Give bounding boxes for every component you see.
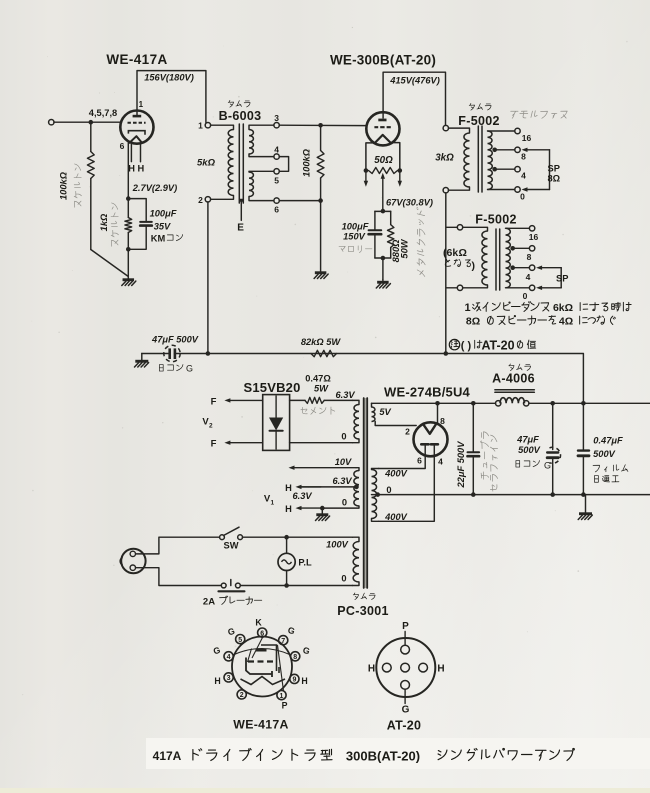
node 47uF top: [550, 401, 555, 406]
svg-text:6: 6: [120, 141, 125, 151]
ground V1 cathode: [127, 277, 129, 279]
svg-text:10V: 10V: [335, 457, 352, 467]
svg-text:( ): ( ): [461, 340, 472, 352]
AT-20 pin H right: [419, 663, 428, 672]
svg-text:1: 1: [198, 121, 203, 131]
tap 6.3V arrow: [299, 486, 357, 488]
T2 tap 0: [488, 189, 515, 191]
svg-text:P.L: P.L: [298, 558, 312, 568]
T3 primary coil: [482, 231, 488, 285]
node 22uF top: [471, 401, 476, 406]
svg-text:H: H: [128, 164, 135, 174]
svg-text:5kΩ: 5kΩ: [197, 158, 216, 169]
bridge diode symbol: [275, 396, 277, 418]
svg-text:3: 3: [227, 675, 231, 682]
T2 tap 4: [495, 168, 515, 170]
PT HV winding (right): [372, 470, 377, 519]
svg-text:G: G: [544, 461, 551, 471]
label Tamura (A-4006): [509, 364, 531, 371]
svg-text:400V: 400V: [384, 469, 408, 479]
svg-text:G: G: [402, 705, 410, 716]
node 47uF bottom: [550, 492, 555, 497]
svg-text:0.47μF: 0.47μF: [593, 436, 623, 446]
caption white strip: [146, 738, 650, 769]
T1 sec tap 5: [249, 170, 274, 173]
V3 pin8 wire: [437, 403, 439, 424]
V3 plates: [421, 443, 428, 446]
label Tamura (F-5002): [469, 103, 491, 110]
svg-text:5: 5: [274, 176, 279, 186]
resistor 100k grid leak: [90, 122, 92, 151]
svg-text:50Ω: 50Ω: [374, 155, 393, 166]
wire pin3 to 300B grid: [279, 124, 366, 126]
V2 filament: [375, 135, 391, 143]
wire cathode down: [127, 143, 129, 199]
svg-text:4: 4: [274, 145, 279, 155]
label Tamura PC-3001: [353, 593, 375, 600]
V1 cathode: [128, 131, 145, 135]
node 100k bottom: [318, 198, 323, 203]
svg-text:8Ω: 8Ω: [548, 174, 561, 184]
svg-text:WE-274B/5U4: WE-274B/5U4: [384, 385, 471, 400]
wire pin2 down to B+ node: [207, 202, 209, 354]
PT 100V winding (left bottom): [353, 542, 359, 582]
node wiper bottom: [381, 209, 386, 214]
capacitor 0.47uF film: [582, 403, 584, 450]
T1 sec tap 4: [249, 154, 274, 157]
svg-text:): ): [472, 260, 476, 272]
tap 10V arrow: [356, 468, 359, 471]
transformer PT PC-3001 core: [363, 398, 368, 588]
T2 tap 8: [495, 149, 515, 151]
svg-text:KM: KM: [151, 233, 166, 243]
svg-text:H: H: [368, 664, 375, 675]
svg-text:H: H: [437, 664, 444, 675]
node pin8: [435, 401, 440, 406]
label amorphous gray: [509, 111, 567, 119]
svg-text:1: 1: [139, 100, 144, 109]
wire bridge bottom to 0 tap: [290, 442, 353, 444]
capacitor 47uF 500V (dashed can): [164, 345, 180, 361]
choke A-4006: [495, 389, 534, 391]
T2 tap 16: [488, 130, 515, 132]
PT 5V winding (right): [372, 407, 375, 422]
svg-text:6.3V: 6.3V: [292, 491, 312, 501]
wire jumper pins 4-5: [279, 157, 288, 172]
T3 core: [495, 229, 497, 290]
resistor 0.47 Ohm 5W cement: [290, 399, 305, 401]
T1 secondary lower coil: [249, 172, 253, 197]
label Nikkon G: [159, 365, 183, 372]
svg-text:5V: 5V: [379, 407, 391, 417]
wire pin2 to 5V winding bottom: [375, 422, 416, 426]
svg-text:3kΩ: 3kΩ: [435, 153, 454, 164]
capacitor 47uF 500V block (dashed): [552, 403, 554, 449]
capacitor 22uF 500V: [472, 403, 474, 452]
capacitor 100uF cathode bypass: [128, 199, 146, 222]
svg-text:AT-20: AT-20: [387, 719, 422, 733]
resistor 1k cathode: [127, 199, 129, 218]
transformer T1 B-6003 core: [238, 124, 240, 203]
wire 156V plate supply rail: [137, 71, 206, 123]
svg-text:0: 0: [341, 432, 346, 442]
svg-text:1: 1: [270, 500, 274, 507]
node cathode top: [126, 196, 131, 201]
svg-text:AT-20: AT-20: [481, 339, 514, 353]
label metal clad rotated gray: [417, 207, 425, 276]
svg-text:300B(AT-20): 300B(AT-20): [346, 749, 420, 764]
svg-text:PC-3001: PC-3001: [337, 604, 388, 618]
socket internal structure: [248, 638, 263, 663]
svg-text:35V: 35V: [154, 221, 171, 231]
svg-text:0: 0: [386, 485, 391, 495]
wire plug top to SW: [136, 537, 220, 554]
AT-20 pin H left: [382, 663, 391, 672]
svg-text:7: 7: [281, 638, 285, 645]
svg-text:H: H: [285, 483, 292, 493]
svg-text:8: 8: [521, 152, 526, 162]
node grid junction: [89, 120, 94, 125]
T2 primary pins: [443, 125, 448, 130]
svg-text:SW: SW: [224, 541, 239, 551]
socket WE-417A outline: [232, 637, 292, 697]
label tubular cerafine rotated gray: [481, 432, 489, 480]
wire pin6 to 400V top tap: [379, 444, 426, 468]
svg-text:417A: 417A: [153, 749, 182, 763]
PT heater winding B (left middle): [354, 471, 359, 507]
svg-text:415V(476V): 415V(476V): [389, 76, 440, 86]
node pin2/B+ junction: [206, 351, 211, 356]
svg-text:100kΩ: 100kΩ: [59, 171, 69, 200]
T1 sec tap 3: [249, 125, 274, 129]
breaker 2A: [221, 583, 226, 588]
svg-text:47μF 500V: 47μF 500V: [151, 335, 199, 345]
svg-text:22μF 500V: 22μF 500V: [456, 441, 466, 489]
node 100k top: [318, 123, 323, 128]
AC plug: [121, 549, 145, 573]
svg-text:6: 6: [417, 456, 422, 466]
parallel RC bottom bar: [375, 257, 391, 259]
bottom rail 0V: [378, 494, 650, 496]
svg-text:P: P: [282, 701, 288, 711]
svg-text:1: 1: [280, 693, 284, 700]
V2 grid dashes: [374, 126, 390, 128]
wire input to grid: [54, 121, 121, 123]
T3 secondary lower: [506, 248, 511, 288]
AT-20 pin center: [401, 663, 410, 672]
svg-text:S15VB20: S15VB20: [243, 380, 300, 395]
node PL bottom: [284, 583, 289, 588]
node 0.47uF bottom: [581, 492, 586, 497]
ground heater 0: [321, 508, 323, 513]
wire pin4 to 400V bottom tap: [379, 444, 435, 521]
svg-text:4,5,7,8: 4,5,7,8: [89, 108, 117, 118]
svg-text:(6k: (6k: [443, 247, 458, 259]
svg-text:16: 16: [529, 232, 539, 242]
T1 primary bottom lead + pin 2: [211, 196, 234, 200]
tube V3 274B envelope: [414, 422, 448, 456]
svg-text:K: K: [255, 618, 262, 628]
svg-text:2: 2: [405, 427, 410, 437]
V2 filament leads: [366, 143, 375, 171]
svg-text:0: 0: [520, 192, 525, 202]
ground 880: [382, 280, 384, 282]
svg-text:100kΩ: 100kΩ: [302, 148, 312, 177]
V3 filament V: [423, 424, 436, 434]
wire plug bottom to breaker: [136, 568, 221, 586]
svg-text:2: 2: [240, 692, 244, 699]
T1 primary coil: [228, 130, 233, 196]
svg-text:G: G: [186, 364, 193, 374]
svg-text:WE-300B(AT-20): WE-300B(AT-20): [330, 53, 436, 68]
switch SW: [220, 535, 225, 540]
svg-text:9: 9: [292, 677, 296, 684]
tap 0 arrow + ground: [322, 506, 359, 508]
svg-text:6kΩ: 6kΩ: [553, 302, 573, 314]
svg-text:SP: SP: [548, 164, 560, 174]
resistor 100k grid (300B): [320, 125, 322, 150]
svg-text:8: 8: [527, 252, 532, 262]
T3 tap 4: [513, 267, 530, 269]
svg-text:100V: 100V: [326, 540, 349, 550]
wire 415V rail: [383, 72, 445, 125]
svg-text:100μF: 100μF: [342, 222, 369, 232]
svg-text:150V: 150V: [343, 232, 366, 242]
svg-text:500V: 500V: [593, 449, 616, 459]
svg-text:6.3V: 6.3V: [332, 476, 352, 486]
svg-text:4Ω: 4Ω: [559, 316, 573, 328]
arrow hum left down: [365, 171, 367, 181]
T2 secondary coil upper: [488, 131, 493, 150]
arrow wiper up: [382, 179, 384, 211]
label Tamura (B-6003): [228, 100, 250, 107]
node 0.47uF top: [581, 401, 586, 406]
T1 core earth lead E: [240, 203, 242, 220]
tube V1 WE-417A envelope: [120, 111, 153, 144]
T1 primary top lead + pin 1: [211, 125, 234, 129]
wire to ground (880): [382, 258, 384, 280]
svg-text:F-5002: F-5002: [475, 213, 516, 227]
AT-20 pin G: [401, 681, 410, 690]
PT 6.3V winding A (left top): [354, 405, 359, 440]
svg-text:F: F: [211, 439, 217, 450]
svg-text:5: 5: [238, 637, 242, 644]
node 22uF bottom: [471, 492, 476, 497]
svg-text:2A: 2A: [203, 597, 215, 608]
svg-text:500V: 500V: [518, 445, 541, 455]
wire pin6 to 100k bottom: [279, 200, 320, 202]
svg-text:47μF: 47μF: [516, 435, 539, 445]
svg-text:156V(180V): 156V(180V): [144, 73, 194, 83]
SP bracket lower arrows: [542, 267, 561, 269]
socket pins 1-9: [258, 628, 267, 637]
arrow hum right down: [399, 171, 401, 181]
svg-text:P: P: [402, 621, 409, 632]
svg-text:SP: SP: [556, 274, 568, 284]
wire 100k bottom diagonal to ground: [91, 250, 129, 277]
svg-text:E: E: [237, 223, 244, 234]
wire T2 primary bottom to B+ rail: [445, 193, 447, 354]
resistor 880 Ohm branch: [390, 211, 392, 224]
svg-text:4: 4: [438, 457, 443, 467]
wire SW to 100V tap: [243, 536, 353, 538]
T1 secondary upper coil: [249, 130, 253, 155]
svg-text:6: 6: [260, 630, 264, 637]
svg-text:67V(30.8V): 67V(30.8V): [386, 198, 433, 208]
svg-text:1kΩ: 1kΩ: [99, 213, 109, 231]
svg-text:8: 8: [293, 654, 297, 661]
svg-text:2.7V(2.9V): 2.7V(2.9V): [132, 183, 177, 193]
svg-text:4: 4: [526, 272, 531, 282]
T1 sec tap 6: [249, 197, 274, 201]
T3 left pins with stubs: [457, 225, 462, 230]
T3 tap 0: [506, 287, 530, 289]
svg-text:0.47Ω: 0.47Ω: [305, 374, 331, 384]
svg-text:4: 4: [521, 171, 526, 181]
wire bridge out top F: [230, 399, 262, 401]
parallel RC top bar: [375, 210, 391, 212]
svg-text:8: 8: [440, 416, 445, 426]
node PL top: [284, 535, 289, 540]
svg-text:2: 2: [209, 423, 213, 430]
svg-text:H: H: [214, 676, 220, 686]
T2 secondary coil lower: [488, 150, 493, 190]
wire bridge out bottom F: [230, 442, 262, 444]
svg-text:B-6003: B-6003: [219, 109, 262, 123]
B+ rail at 403: [372, 402, 496, 404]
tube V2 300B envelope: [366, 112, 399, 145]
svg-text:16: 16: [522, 133, 532, 143]
svg-text:100μF: 100μF: [150, 209, 177, 219]
capacitor 100uF 150V branch: [374, 211, 376, 230]
bridge rectifier box: [263, 395, 290, 451]
label sukeruton 2 rotated: [111, 203, 118, 246]
svg-text:5W: 5W: [314, 384, 329, 394]
V1 grid dashes: [128, 122, 146, 124]
svg-text:0: 0: [341, 574, 346, 584]
ground left 47uF: [141, 354, 143, 361]
note circled-chu ( ) wa AT-20 no atai: [449, 339, 459, 349]
V2 plate bar: [378, 119, 386, 122]
svg-text:1: 1: [464, 302, 470, 314]
V1 plate bar: [133, 115, 142, 118]
svg-text:WE-417A: WE-417A: [106, 52, 167, 67]
AT-20 pin P: [401, 645, 410, 654]
svg-text:6.3V: 6.3V: [335, 390, 355, 400]
wire breaker to 0 tap: [240, 585, 352, 587]
svg-text:0: 0: [523, 291, 528, 301]
svg-text:F: F: [211, 397, 217, 408]
svg-text:H: H: [138, 164, 145, 174]
svg-text:50W: 50W: [400, 238, 410, 258]
T3 tap 16: [506, 227, 530, 229]
label sukeruton rotated (gray): [74, 164, 81, 207]
input terminal: [49, 120, 54, 125]
ground main: [585, 495, 587, 513]
V1 heater stubs H H: [130, 143, 132, 161]
svg-text:2: 2: [198, 195, 203, 205]
PT HV center tap 0: [372, 494, 378, 496]
svg-text:400V: 400V: [384, 512, 408, 522]
svg-text:Ω: Ω: [459, 247, 467, 259]
svg-text:82kΩ 5W: 82kΩ 5W: [301, 337, 342, 347]
ground 100k: [320, 201, 322, 272]
svg-text:3: 3: [274, 113, 279, 123]
svg-text:8Ω: 8Ω: [466, 316, 480, 328]
svg-text:WE-417A: WE-417A: [233, 718, 288, 732]
node cathode bottom: [126, 247, 131, 252]
T3 secondary upper: [506, 228, 511, 248]
pilot lamp P.L: [286, 537, 288, 553]
svg-text:0: 0: [342, 498, 347, 508]
socket AT-20 outline: [376, 638, 435, 697]
node F5002 primary return: [444, 351, 449, 356]
T3 tap 8: [513, 247, 530, 249]
svg-text:H: H: [301, 676, 307, 686]
svg-text:6: 6: [274, 205, 279, 215]
svg-text:A-4006: A-4006: [492, 372, 535, 386]
pot 50 Ohm hum balance: [364, 168, 369, 173]
V1 heater filament: [129, 136, 141, 143]
svg-text:4: 4: [227, 654, 231, 661]
wire B+ rail 355: [142, 354, 584, 404]
SP 8 Ohm bracket arrows: [528, 149, 550, 151]
T2 core: [477, 126, 479, 192]
T2 primary coil: [464, 133, 470, 187]
svg-text:H: H: [285, 504, 292, 514]
